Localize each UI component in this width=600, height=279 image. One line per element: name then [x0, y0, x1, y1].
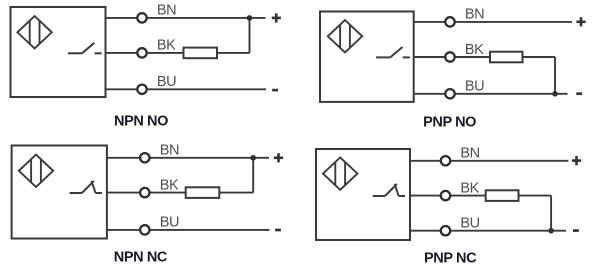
switch contact (NC): [70, 181, 102, 193]
wire BU: [107, 229, 270, 231]
wire BU: [414, 93, 568, 95]
sensor symbol (diamond logo): [17, 16, 51, 48]
resistor load: [490, 52, 523, 63]
svg-text:BN: BN: [157, 3, 176, 19]
sensor symbol (diamond logo): [328, 20, 362, 52]
junction node on BU: [548, 228, 554, 234]
sensor box (PNP NO): [320, 12, 414, 102]
switch contact (NC): [373, 184, 405, 196]
svg-text:BK: BK: [460, 180, 479, 196]
sensor symbol (diamond logo): [323, 157, 357, 189]
svg-text:BN: BN: [465, 7, 484, 23]
terminal BK: [140, 188, 149, 197]
+ terminal: [576, 17, 585, 26]
svg-text:BK: BK: [157, 38, 176, 54]
resistor load: [184, 48, 218, 59]
wire BN: [414, 21, 572, 23]
svg-text:PNP NO: PNP NO: [423, 115, 476, 131]
terminal BU: [137, 85, 146, 94]
svg-text:NPN NC: NPN NC: [114, 250, 168, 266]
wire BU: [106, 88, 267, 90]
terminal BU: [140, 225, 149, 234]
terminal BK: [137, 48, 146, 57]
svg-text:BK: BK: [160, 177, 179, 193]
sensor box (NPN NC): [12, 146, 107, 239]
resistor load: [486, 190, 519, 201]
wire BN: [106, 17, 266, 19]
+ terminal: [572, 156, 581, 165]
svg-text:BN: BN: [160, 143, 179, 159]
wire load to - rail: [519, 196, 552, 231]
svg-text:NPN NO: NPN NO: [114, 114, 168, 130]
svg-text:BU: BU: [160, 215, 179, 231]
terminal BN: [441, 156, 450, 165]
resistor load: [186, 187, 220, 198]
svg-text:BU: BU: [465, 79, 484, 95]
terminal BK: [441, 191, 450, 200]
junction node on BN: [250, 155, 256, 161]
wire BK: [107, 192, 186, 194]
+ terminal: [272, 13, 281, 22]
wire BK: [410, 195, 486, 197]
terminal BN: [445, 17, 454, 26]
wire BN: [107, 157, 269, 159]
switch contact (NO): [68, 43, 102, 53]
terminal BU: [445, 89, 454, 98]
wire BU: [410, 230, 566, 232]
terminal BU: [441, 226, 450, 235]
sensor box (PNP NC): [316, 149, 410, 240]
- terminal: [272, 89, 278, 92]
wire load to - rail: [523, 57, 556, 94]
+ terminal: [274, 153, 283, 162]
wire BN: [410, 160, 568, 162]
- terminal: [573, 229, 579, 232]
switch contact (NO): [376, 47, 410, 57]
- terminal: [275, 229, 281, 232]
junction node on BN: [247, 15, 253, 21]
wire load to + rail: [217, 18, 250, 53]
svg-text:BU: BU: [157, 74, 176, 90]
wire BK: [106, 52, 184, 54]
wire BK: [414, 56, 490, 58]
sensor box (NPN NO): [11, 7, 106, 97]
terminal BN: [140, 153, 149, 162]
junction node on BU: [552, 91, 558, 97]
svg-text:BN: BN: [460, 146, 479, 162]
terminal BK: [445, 52, 454, 61]
wire load to + rail: [219, 158, 253, 193]
- terminal: [576, 92, 582, 95]
svg-text:BK: BK: [465, 42, 484, 58]
terminal BN: [137, 13, 146, 22]
sensor symbol (diamond logo): [19, 155, 53, 187]
svg-text:PNP NC: PNP NC: [424, 251, 477, 267]
svg-text:BU: BU: [460, 216, 479, 232]
